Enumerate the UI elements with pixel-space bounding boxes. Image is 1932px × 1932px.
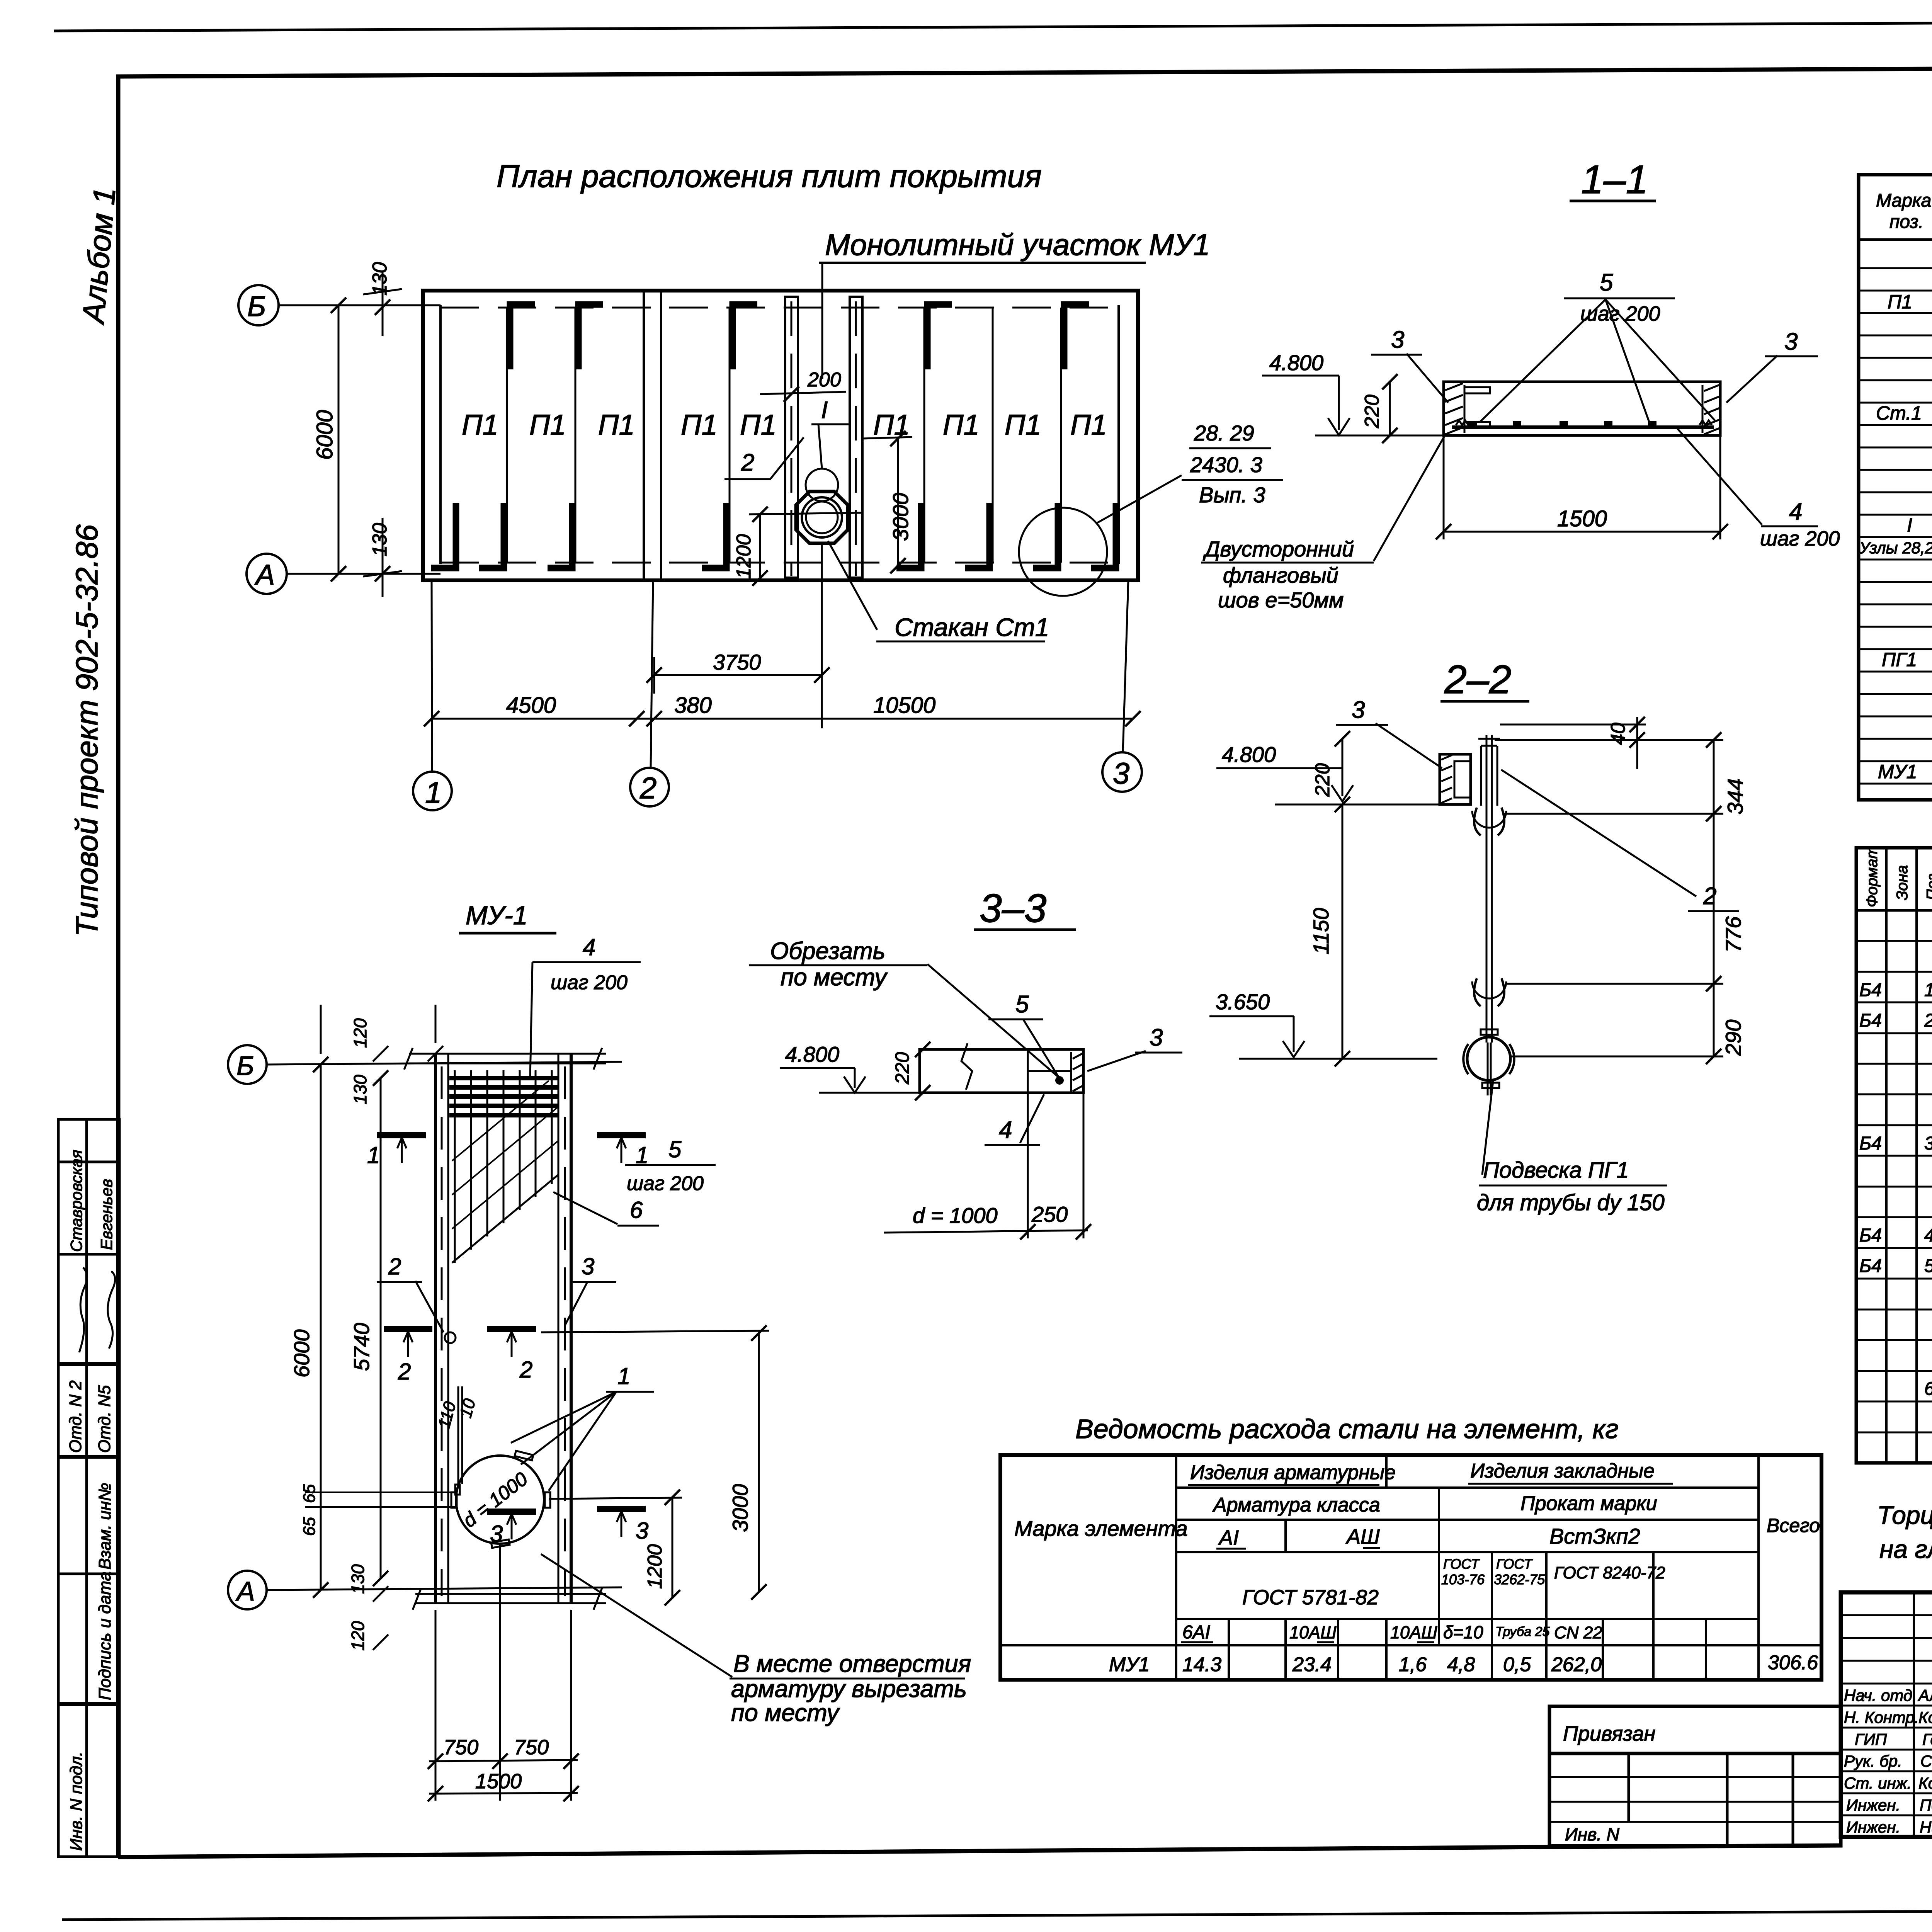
pipe clamp circle [1467, 1037, 1510, 1080]
svg-text:Инв. N подл.: Инв. N подл. [67, 1752, 86, 1851]
svg-text:А: А [254, 559, 275, 591]
right dim chain 344 776 290 [1713, 740, 1715, 1056]
bottom cap lines [415, 1593, 606, 1595]
axis circle Б [238, 285, 279, 325]
title block outline [1841, 1592, 1932, 1837]
svg-text:1: 1 [1924, 980, 1932, 1000]
svg-text:1150: 1150 [1309, 908, 1333, 954]
svg-text:Ставровская: Ставровская [67, 1150, 85, 1252]
МУ1 strip left dash [791, 301, 793, 576]
svg-text:2: 2 [519, 1357, 532, 1383]
extension line grid 3 [1123, 580, 1128, 752]
dim 1500 (1-1) [1443, 435, 1445, 539]
svg-text:130: 130 [348, 1564, 368, 1594]
sidebar row line 5 [58, 1573, 119, 1575]
svg-text:по месту: по месту [731, 1699, 840, 1726]
dim 130 top: extension [382, 270, 384, 336]
svg-text:Н. Контр.: Н. Контр. [1844, 1708, 1919, 1726]
plate joint 3 [729, 308, 731, 563]
dim 40 [1636, 717, 1638, 769]
sidebar stamp table outline [58, 1119, 119, 1857]
svg-text:Арматура класса: Арматура класса [1212, 1494, 1380, 1516]
марка элемента column divider [1175, 1455, 1177, 1680]
svg-text:1–1: 1–1 [1581, 157, 1648, 202]
svg-text:5: 5 [1015, 991, 1029, 1018]
svg-text:14.3: 14.3 [1182, 1653, 1221, 1676]
svg-text:шов е=50мм: шов е=50мм [1218, 588, 1344, 612]
svg-text:2430. 3: 2430. 3 [1190, 452, 1262, 477]
svg-text:1: 1 [617, 1363, 630, 1389]
paper top edge line [54, 20, 1932, 31]
plate joint 4 [923, 308, 925, 563]
svg-text:65: 65 [300, 1517, 319, 1536]
svg-text:5: 5 [1924, 1256, 1932, 1276]
section mark 1 left [377, 1132, 426, 1138]
dim 130 bottom: extension [382, 518, 384, 597]
svg-text:10АШ: 10АШ [1289, 1622, 1337, 1642]
axis circle А [247, 554, 287, 594]
svg-text:290: 290 [1721, 1020, 1745, 1056]
svg-text:I: I [821, 397, 828, 423]
detail callout leader [1097, 475, 1182, 523]
svg-text:Марка элемента: Марка элемента [1014, 1516, 1188, 1541]
extension line grid 1 [432, 580, 432, 771]
svg-text:1: 1 [367, 1142, 380, 1168]
svg-text:120: 120 [348, 1621, 368, 1651]
row line 2 [1176, 1519, 1759, 1521]
svg-text:на глубину не менее 30 см: на глубину не менее 30 см. [1879, 1535, 1932, 1563]
opening circle d=1000 [456, 1456, 544, 1544]
svg-text:750: 750 [444, 1736, 478, 1759]
узел I circle [806, 469, 838, 501]
dim 5740 [380, 1078, 382, 1578]
svg-text:10АШ: 10АШ [1390, 1622, 1437, 1642]
svg-text:3: 3 [582, 1253, 594, 1279]
svg-text:65: 65 [300, 1484, 319, 1503]
svg-text:А: А [235, 1576, 255, 1606]
svg-text:Полякова: Полякова [1920, 1796, 1932, 1814]
svg-text:Гольдина: Гольдина [1922, 1730, 1932, 1748]
svg-text:ГОСТ: ГОСТ [1496, 1556, 1533, 1572]
svg-text:Привязан: Привязан [1563, 1722, 1655, 1745]
svg-text:120: 120 [350, 1018, 370, 1048]
стакан center line [821, 543, 823, 728]
axis line А [287, 573, 440, 575]
svg-text:Поз.: Поз. [1924, 869, 1932, 901]
plan inner left edge [439, 305, 442, 564]
cut rebar dot [1055, 1076, 1064, 1085]
svg-text:4.800: 4.800 [1269, 350, 1323, 375]
svg-text:28. 29: 28. 29 [1194, 421, 1254, 445]
sidebar row line 3 [58, 1362, 119, 1366]
row line 5 (data row top) [1000, 1644, 1821, 1646]
sidebar column divider [85, 1119, 88, 1857]
svg-text:Стакан Ст1: Стакан Ст1 [895, 613, 1049, 641]
dividers ГОСТ row [1491, 1552, 1493, 1645]
axis circle А (МУ-1) [228, 1571, 267, 1609]
svg-text:306.6: 306.6 [1768, 1651, 1818, 1674]
dim 6000 tick top [331, 298, 346, 313]
svg-text:3262-75: 3262-75 [1494, 1571, 1545, 1587]
svg-text:103-76: 103-76 [1441, 1571, 1485, 1587]
svg-text:Б4: Б4 [1859, 1256, 1882, 1276]
svg-text:Рук. бр.: Рук. бр. [1844, 1752, 1902, 1770]
spec1 header bottom [1859, 238, 1932, 241]
slab left end hatch [1445, 383, 1463, 434]
svg-text:5740: 5740 [349, 1323, 374, 1371]
svg-text:шаг 200: шаг 200 [627, 1172, 704, 1195]
стакан inner circle 2 [806, 502, 838, 533]
sidebar row line 6 [58, 1702, 119, 1706]
plate joint 1 [506, 308, 508, 563]
svg-text:6АI: 6АI [1182, 1622, 1210, 1643]
upper clamp hooks [1474, 808, 1504, 835]
spec2 row lines [1856, 940, 1932, 942]
svg-text:1200: 1200 [733, 534, 755, 579]
svg-text:Альтшуллер: Альтшуллер [1917, 1686, 1932, 1704]
svg-text:1,6: 1,6 [1399, 1653, 1427, 1676]
svg-text:Взам. ин№: Взам. ин№ [95, 1483, 114, 1570]
svg-text:Станина: Станина [1920, 1752, 1932, 1770]
svg-text:Прокат марки: Прокат марки [1520, 1492, 1657, 1515]
svg-text:Ст.1: Ст.1 [1876, 402, 1922, 424]
svg-text:344: 344 [1723, 779, 1747, 815]
svg-text:3: 3 [636, 1518, 648, 1544]
svg-text:МУ1: МУ1 [1109, 1653, 1150, 1676]
frame left edge [116, 77, 121, 1857]
svg-text:ГОСТ 8240-72: ГОСТ 8240-72 [1554, 1563, 1665, 1582]
svg-text:Обрезать: Обрезать [770, 938, 885, 964]
svg-text:2: 2 [388, 1253, 401, 1279]
svg-text:П1: П1 [1070, 409, 1107, 441]
signature scribble 1 [79, 1267, 87, 1352]
section mark 3 left [487, 1509, 536, 1515]
svg-text:Ст. инж.: Ст. инж. [1844, 1774, 1912, 1792]
section mark 1 right [597, 1132, 646, 1138]
svg-text:П1: П1 [1005, 409, 1041, 441]
grid circle 3 [1102, 752, 1142, 792]
signature area columns [1913, 1592, 1915, 1837]
svg-text:ГОСТ: ГОСТ [1443, 1556, 1480, 1572]
svg-text:4: 4 [583, 934, 595, 960]
svg-text:Б: Б [247, 290, 266, 322]
gap strip line A [643, 291, 645, 580]
svg-text:3: 3 [1391, 327, 1404, 353]
svg-text:4.800: 4.800 [785, 1042, 839, 1066]
svg-text:2: 2 [741, 449, 754, 476]
svg-text:П1: П1 [873, 409, 910, 441]
МУ1 strip right [850, 297, 862, 578]
svg-text:ГОСТ 5781-82: ГОСТ 5781-82 [1242, 1586, 1379, 1609]
МУ1 strip right dash [855, 301, 857, 576]
svg-text:1500: 1500 [475, 1770, 522, 1793]
svg-text:Монолитный участок МУ1: Монолитный участок МУ1 [825, 228, 1210, 262]
svg-text:ГИП: ГИП [1855, 1730, 1887, 1748]
svg-text:10500: 10500 [873, 693, 935, 718]
svg-text:Инжен.: Инжен. [1846, 1796, 1900, 1814]
svg-text:Двусторонний: Двусторонний [1202, 537, 1354, 561]
svg-text:3: 3 [1113, 756, 1129, 790]
vertical rebars with diagonal cut [454, 1070, 456, 1263]
svg-text:арматуру вырезать: арматуру вырезать [731, 1675, 967, 1702]
svg-text:200: 200 [807, 369, 841, 391]
привязан grid top line [1549, 1752, 1841, 1755]
svg-text:ВстЗкп2: ВстЗкп2 [1549, 1524, 1640, 1548]
frame bottom edge [118, 1845, 1841, 1857]
svg-text:Инжен.: Инжен. [1846, 1818, 1900, 1836]
slab 3-3 inner notch line [1028, 1070, 1071, 1072]
svg-text:3.650: 3.650 [1216, 990, 1270, 1014]
svg-text:4.800: 4.800 [1222, 742, 1276, 767]
spec1 row lines [1859, 267, 1932, 269]
horizontal rebars [449, 1076, 558, 1080]
plan inner right edge [1117, 305, 1120, 564]
diagonal shading [452, 1175, 558, 1263]
svg-text:П1: П1 [740, 409, 777, 441]
svg-text:шаг 200: шаг 200 [551, 971, 628, 994]
svg-text:Подпись и дата: Подпись и дата [95, 1571, 114, 1700]
dim 6000 vertical line [338, 305, 340, 574]
svg-text:Б4: Б4 [1859, 980, 1882, 1000]
detail circle узлы 28,29 [1019, 508, 1107, 596]
plan top hidden edge (dashed) [440, 307, 1119, 309]
row line 4 [1176, 1618, 1759, 1620]
svg-text:6000: 6000 [312, 410, 337, 460]
svg-text:П1: П1 [462, 409, 498, 441]
dividers bottom label row [1228, 1619, 1230, 1680]
row line 1 [1176, 1486, 1759, 1489]
slab 3-3 outline [920, 1049, 1083, 1093]
main dim line 4500 380 10500 [432, 718, 1133, 720]
dim 3000 [862, 437, 912, 439]
svg-text:d = 1000: d = 1000 [913, 1203, 998, 1228]
svg-text:фланговый: фланговый [1223, 563, 1338, 587]
spring ends [1456, 420, 1468, 425]
spec1 outer box [1859, 175, 1932, 800]
svg-text:Ницкевич: Ницкевич [1920, 1818, 1932, 1836]
svg-text:4,8: 4,8 [1447, 1653, 1475, 1676]
sidebar row line 1 [58, 1161, 119, 1163]
callout leader to МУ1 [821, 263, 823, 379]
svg-text:ПГ1: ПГ1 [1882, 649, 1917, 670]
svg-text:Труба 25: Труба 25 [1495, 1624, 1550, 1639]
signature scribble 2 [108, 1271, 115, 1349]
svg-text:3750: 3750 [713, 650, 761, 674]
svg-text:380: 380 [674, 693, 712, 718]
svg-text:3: 3 [1924, 1133, 1932, 1154]
bottom corner hooks [431, 503, 456, 568]
svg-text:П1: П1 [943, 409, 980, 441]
svg-text:Отд. N5: Отд. N5 [95, 1385, 114, 1453]
svg-text:3000: 3000 [728, 1484, 752, 1532]
svg-text:П1: П1 [681, 409, 718, 441]
svg-text:750: 750 [514, 1736, 549, 1759]
svg-text:1200: 1200 [644, 1544, 666, 1589]
svg-text:4: 4 [999, 1117, 1012, 1143]
slab left channel web [1464, 385, 1466, 433]
всего column divider [1757, 1455, 1760, 1680]
svg-text:4500: 4500 [506, 693, 556, 718]
svg-text:220: 220 [891, 1052, 913, 1085]
svg-text:Инв. N: Инв. N [1565, 1824, 1620, 1844]
привязан grid columns [1628, 1753, 1630, 1822]
plan bottom hidden edge (dashed) [440, 562, 1119, 564]
svg-text:Корнилова: Корнилова [1918, 1708, 1932, 1726]
svg-text:Кормилова: Кормилова [1918, 1774, 1932, 1792]
svg-text:3: 3 [1352, 697, 1365, 723]
signature area rows [1841, 1614, 1932, 1616]
svg-text:3000: 3000 [888, 493, 913, 541]
dim 220 (1-1) [1389, 382, 1391, 435]
rebar dots [1468, 421, 1477, 427]
svg-text:CN 22: CN 22 [1554, 1623, 1602, 1642]
plate joint 5 [992, 308, 994, 563]
paper bottom edge [62, 1908, 1932, 1920]
svg-text:2: 2 [1924, 1010, 1932, 1031]
break mark [961, 1043, 972, 1090]
svg-text:П1: П1 [1888, 291, 1912, 313]
svg-text:δ=10: δ=10 [1443, 1622, 1483, 1642]
svg-text:23.4: 23.4 [1292, 1653, 1332, 1676]
dim 3000 (МУ-1) [758, 1333, 760, 1592]
divider арматура/прокат [1438, 1488, 1440, 1645]
frame top edge [116, 66, 1932, 77]
svg-text:шаг 200: шаг 200 [1760, 527, 1840, 550]
gap strip line B [660, 291, 662, 580]
svg-text:Отд. N 2: Отд. N 2 [66, 1380, 85, 1453]
spec2 column lines [1885, 848, 1888, 1463]
svg-text:МУ-1: МУ-1 [466, 901, 528, 930]
svg-text:130: 130 [369, 262, 391, 296]
svg-text:поз.: поз. [1889, 212, 1923, 232]
svg-text:Вып. 3: Вып. 3 [1199, 483, 1265, 507]
svg-text:0,5: 0,5 [1503, 1653, 1531, 1676]
slab 3-3 right hatch [1070, 1052, 1072, 1093]
extension line grid 2 [651, 580, 653, 767]
svg-text:Б4: Б4 [1859, 1133, 1882, 1154]
callout underline [819, 262, 1146, 264]
svg-text:2: 2 [639, 771, 656, 805]
svg-text:3: 3 [490, 1521, 503, 1547]
svg-text:Зона: Зона [1894, 865, 1911, 900]
svg-text:1500: 1500 [1557, 506, 1607, 531]
svg-text:Изделия арматурные: Изделия арматурные [1190, 1461, 1396, 1484]
top corner hooks [510, 304, 535, 369]
sidebar row line 4 [58, 1455, 119, 1459]
svg-text:Б4: Б4 [1859, 1010, 1882, 1031]
plate joint 6 [1060, 308, 1062, 563]
svg-text:для трубы dу 150: для трубы dу 150 [1477, 1190, 1665, 1215]
стакан label leader [828, 541, 877, 630]
svg-text:Изделия закладные: Изделия закладные [1470, 1460, 1655, 1482]
svg-text:П1: П1 [598, 409, 635, 441]
svg-text:2: 2 [398, 1359, 411, 1384]
grid circle 2 [630, 768, 669, 806]
hanger top plates [1480, 746, 1482, 806]
svg-text:П1: П1 [529, 409, 566, 441]
plan slab outline [423, 291, 1138, 580]
spec2 outer box [1856, 848, 1932, 1463]
bottom dims 750 750 [435, 1610, 437, 1801]
slab right end hatch block [1702, 385, 1704, 433]
dim 1200 [749, 513, 862, 514]
svg-text:3: 3 [1784, 328, 1798, 355]
svg-text:Типовой проект 902-5-32.86: Типовой проект 902-5-32.86 [70, 524, 104, 937]
svg-text:6000: 6000 [289, 1329, 314, 1378]
dim 6000 tick bottom [331, 566, 346, 582]
svg-text:776: 776 [1721, 916, 1745, 952]
plate joint 2 [575, 308, 577, 563]
ведомость outer box [1000, 1455, 1821, 1680]
svg-text:6: 6 [1924, 1379, 1932, 1399]
svg-text:Евгеньев: Евгеньев [97, 1179, 116, 1250]
svg-text:МУ1: МУ1 [1878, 761, 1917, 782]
dim 3750 [654, 674, 822, 676]
svg-text:I: I [1907, 514, 1912, 536]
sidebar row line 2 [58, 1253, 119, 1256]
svg-text:Марка: Марка [1876, 190, 1931, 211]
row line 3 [1176, 1551, 1759, 1553]
svg-text:130: 130 [369, 523, 391, 556]
svg-text:Подвеска ПГ1: Подвеска ПГ1 [1483, 1158, 1629, 1183]
axis circle Б (МУ-1) [228, 1045, 267, 1084]
slab outline 1-1 [1444, 382, 1720, 435]
svg-text:262,0: 262,0 [1551, 1653, 1602, 1676]
dim 6000 (МУ-1) [320, 1065, 322, 1590]
МУ1 strip left [785, 297, 798, 578]
slab 3-3 inner vertical [1027, 1049, 1029, 1093]
svg-text:3–3: 3–3 [980, 886, 1047, 931]
section mark 2 left [384, 1326, 432, 1332]
svg-text:1: 1 [425, 776, 442, 810]
section mark 2 right [487, 1326, 536, 1332]
svg-text:5: 5 [668, 1136, 682, 1162]
svg-text:40: 40 [1607, 723, 1629, 745]
svg-text:4: 4 [1789, 498, 1802, 525]
svg-text:шаг 200: шаг 200 [1580, 302, 1660, 325]
hanger rod verticals [1486, 735, 1488, 1043]
привязан box outline [1549, 1706, 1841, 1846]
svg-text:130: 130 [350, 1075, 370, 1104]
svg-text:5: 5 [1600, 269, 1613, 296]
svg-text:2: 2 [1703, 883, 1716, 910]
svg-text:250: 250 [1031, 1202, 1068, 1226]
привязан grid rows [1549, 1776, 1841, 1778]
svg-text:Нач. отд.: Нач. отд. [1844, 1686, 1917, 1704]
svg-text:Б: Б [236, 1051, 254, 1081]
grid circle 1 [413, 772, 452, 810]
svg-text:3: 3 [1150, 1024, 1163, 1051]
divider изделия арматурные/закладные [1385, 1455, 1388, 1488]
leaders from 5 [1480, 299, 1605, 422]
svg-text:4: 4 [1924, 1225, 1932, 1246]
spec2 header bottom [1856, 909, 1932, 912]
svg-text:АI: АI [1218, 1526, 1239, 1549]
section mark 3 right [597, 1506, 646, 1512]
dim 1150 [1342, 804, 1344, 1059]
стакан octagon [796, 492, 848, 543]
svg-text:Торцы плит тщательно за: Торцы плит тщательно заделать бетоном М2… [1877, 1501, 1932, 1529]
svg-text:6: 6 [630, 1197, 643, 1223]
svg-text:В месте отверстия: В месте отверстия [733, 1650, 971, 1677]
bottom rebar line [1452, 425, 1714, 429]
стакан inner circle 1 [802, 497, 842, 537]
svg-text:Всего: Всего [1767, 1515, 1820, 1536]
svg-text:по месту: по месту [781, 964, 888, 991]
svg-text:Ведомость расхода стали: Ведомость расхода стали на элемент, кг [1075, 1414, 1619, 1444]
svg-text:План расположения плит покр: План расположения плит покрытия [497, 159, 1042, 194]
dim 1200 (МУ-1) [672, 1497, 673, 1598]
